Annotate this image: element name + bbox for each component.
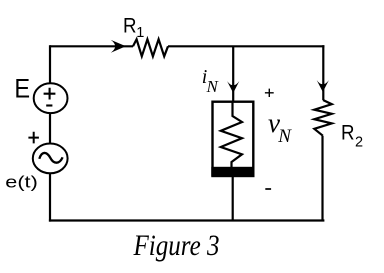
sine wave inside ac source [39, 153, 62, 163]
svg-text:e(t): e(t) [5, 173, 38, 192]
minus sign inside E [46, 104, 52, 106]
ac source e(t) (circle) [33, 144, 68, 174]
wire: left branch, top corner down to E source [49, 45, 51, 83]
wire: right branch, top corner down to R2 [322, 45, 324, 100]
plus sign inside E [44, 88, 56, 100]
wire: left branch, e(t) down to bottom rail [49, 173, 51, 221]
wire: top rail, source corner to R1 [50, 45, 133, 47]
resistor inside N [221, 102, 242, 167]
svg-text:N: N [277, 126, 292, 147]
svg-text:R: R [123, 14, 137, 38]
current arrow iN (down) [227, 81, 239, 93]
wire: bottom rail [49, 219, 325, 221]
minus sign (vN polarity) [265, 188, 271, 190]
wire: top rail, R1 to right corner [168, 45, 324, 47]
dc source E (circle) [34, 83, 68, 113]
svg-text:2: 2 [355, 135, 363, 151]
resistor R1 [133, 39, 168, 56]
svg-text:1: 1 [136, 25, 144, 41]
wire: below N to bottom rail [232, 176, 234, 221]
wire: middle branch, top rail to box N [232, 46, 234, 101]
wire: between E and e(t) sources [49, 113, 51, 144]
resistor R2 [314, 100, 332, 136]
plus sign (vN polarity) [265, 89, 274, 97]
element N: box [213, 102, 254, 176]
svg-text:N: N [206, 77, 220, 96]
black bar at bottom of N [211, 167, 254, 177]
svg-text:R: R [341, 120, 355, 144]
plus sign above e(t) source [28, 132, 39, 144]
svg-text:Figure 3: Figure 3 [133, 229, 220, 262]
svg-text:E: E [14, 73, 30, 103]
current arrow into R2 (down) [317, 80, 329, 92]
wire: below R2 to bottom rail [321, 136, 323, 221]
current arrow on top wire [111, 40, 126, 53]
